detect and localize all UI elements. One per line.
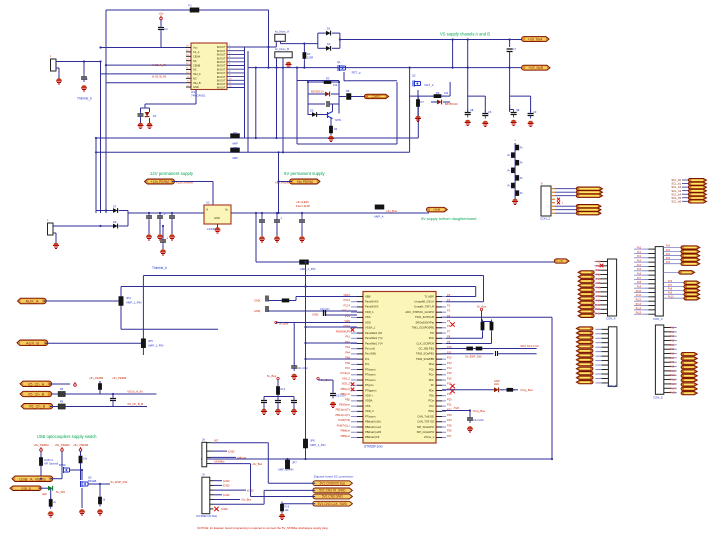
svg-text:P0: P0: [447, 293, 451, 297]
net flag V5_CH_A: [20, 381, 52, 386]
svg-text:PTixanm: PTixanm: [365, 414, 376, 418]
svg-text:LED: LED: [494, 383, 499, 386]
diode D8 on speaker rail: [101, 220, 129, 228]
diode D7 on 12V rail: [96, 205, 128, 213]
svg-text:V5_Ch_B: V5_Ch_B: [29, 405, 46, 409]
svg-text:+VS_NxA: +VS_NxA: [528, 37, 544, 41]
svg-text:+12v PERM: +12v PERM: [151, 180, 169, 184]
svg-text:D3: D3: [327, 42, 331, 46]
IC1 left pins: [186, 48, 191, 88]
ground below C8_A: [511, 120, 517, 126]
svg-text:PansWai1 (^)4: PansWai1 (^)4: [365, 341, 383, 345]
svg-text:PansWai1 (X0: PansWai1 (X0: [365, 331, 383, 335]
wire vertical left x106: [105, 10, 107, 213]
capacitor C19 osc: [254, 306, 357, 313]
CONN_D flag stack: [681, 352, 697, 394]
jumper AMP_1_PIN on y262: [300, 260, 316, 271]
J9 pin wires and labels: [214, 479, 265, 511]
wire vertical x475 inner loop: [121, 286, 476, 288]
wire Q4 Q5 links: [70, 469, 82, 471]
capacitor C13 on 12V rail: [169, 213, 175, 221]
vcc +5v_PERM 2: [54, 443, 70, 451]
svg-text:PB0rpm: PB0rpm: [341, 387, 350, 391]
capacitor C17 row: [110, 393, 116, 407]
svg-text:P4: P4: [447, 314, 451, 318]
MCU left pin labels: [335, 293, 350, 438]
zener D6 BZV55C10: [431, 100, 458, 106]
svg-text:Pc7: Pc7: [668, 284, 673, 287]
svg-text:+5v_PERM: +5v_PERM: [33, 443, 49, 447]
svg-text:VDD_2: VDD_2: [342, 382, 351, 386]
ground below R12: [97, 509, 103, 515]
svg-text:R4: R4: [334, 127, 338, 131]
svg-text:Pn: Pn: [431, 383, 435, 387]
red symbol 5v_Bus 3: [317, 377, 331, 382]
svg-text:C9: C9: [533, 110, 537, 114]
svg-text:Thimble_b: Thimble_b: [152, 266, 167, 270]
svg-text:Pd12: Pd12: [670, 379, 676, 382]
svg-text:F1: F1: [188, 4, 192, 8]
ground below R4: [328, 136, 334, 142]
svg-text:+: +: [166, 237, 168, 241]
svg-text:BZV55C10: BZV55C10: [445, 102, 458, 106]
net flag +VS_NxB: [522, 65, 551, 70]
svg-text:ks_Nxxx_A: ks_Nxxx_A: [275, 30, 289, 34]
svg-text:SPI_GCaGPO: SPI_GCaGPO: [417, 430, 434, 434]
svg-text:Pb3: Pb3: [596, 274, 601, 277]
net flag V5_CH_B2: [21, 404, 53, 409]
wire Q5 drain right: [89, 483, 111, 485]
wire vertical x256 down to y262: [255, 213, 257, 262]
wire charger box bottom y144: [297, 143, 397, 145]
svg-text:PB2: PB2: [345, 397, 350, 401]
wire Q5 down to ground: [81, 488, 83, 508]
svg-text:5v_ESP_SW: 5v_ESP_SW: [465, 355, 482, 359]
svg-text:CENA: CENA: [193, 55, 200, 59]
CONN_C flag stack lower: [663, 280, 700, 300]
svg-text:BSS&B: BSS&B: [88, 480, 97, 483]
svg-text:P1: P1: [447, 298, 451, 302]
svg-text:Pd9: Pd9: [670, 366, 675, 369]
jumper AMP on rail y138: [231, 131, 240, 146]
svg-text:PB11rpm(Tx: PB11rpm(Tx: [336, 408, 351, 412]
svg-text:5V permanent supply: 5V permanent supply: [284, 171, 325, 176]
svg-text:|GND: |GND: [221, 507, 228, 511]
svg-text:PCb: PCb: [429, 336, 435, 340]
svg-text:PB8rpm: PB8rpm: [341, 429, 350, 433]
net flag STLINK 2: [313, 488, 353, 493]
resistor R9 usb: [39, 451, 58, 478]
svg-text:ks_Nxxx_B: ks_Nxxx_B: [275, 47, 289, 51]
svg-text:VBB: VBB: [365, 294, 371, 298]
connector J8 4pin: [196, 438, 217, 518]
svg-text:D8: D8: [113, 220, 117, 224]
jumper J6 on x305 bus: [303, 439, 325, 461]
net flag +VS_NxA: [522, 37, 550, 42]
svg-text:P14: P14: [447, 366, 452, 370]
svg-text:VDD: VDD: [365, 320, 371, 324]
connector CONN_A: [595, 259, 617, 316]
svg-text:R14: R14: [281, 388, 286, 391]
svg-text:Pc12: Pc12: [636, 300, 642, 302]
capacitor C_sp1: [81, 62, 88, 83]
svg-text:Pmi pn5: Pmi pn5: [365, 347, 375, 351]
svg-text:Thimble_b: Thimble_b: [77, 97, 92, 101]
svg-text:LED: LED: [42, 493, 47, 496]
connector J9 8pin: [202, 473, 210, 514]
svg-text:Pb4: Pb4: [596, 278, 601, 281]
wire vertical x278 5V feed: [278, 152, 280, 213]
svg-text:+5v_Bus: +5v_Bus: [252, 462, 263, 466]
svg-text:Perm 4148: Perm 4148: [296, 204, 310, 208]
svg-text:catb.too: catb.too: [237, 456, 247, 460]
svg-text:P16: P16: [447, 376, 452, 380]
svg-text:SDA.SCL A 5V: SDA.SCL A 5V: [520, 344, 539, 348]
svg-text:C6: C6: [488, 110, 492, 114]
MCU internal text right column: [405, 294, 434, 439]
grounds below C14 C15 C16: [259, 236, 265, 242]
svg-text:Pb7: Pb7: [596, 291, 601, 294]
net flag CHARGER_ON: [364, 94, 388, 99]
diode loop right stub: [339, 33, 341, 48]
svg-text:|GND: |GND: [228, 449, 235, 453]
svg-text:PC14: PC14: [344, 303, 351, 307]
ground below speaker LS2: [53, 243, 59, 249]
diode loop left stub: [317, 33, 319, 48]
svg-text:FET_p: FET_p: [352, 71, 361, 75]
ground below speaker LS1: [56, 78, 62, 84]
CONN_D: [655, 325, 676, 394]
svg-text:SCL_b5: SCL_b5: [671, 196, 681, 200]
svg-text:5V1 CN3OV5 bus: 5V1 CN3OV5 bus: [320, 481, 346, 485]
wire charger top connections: [308, 80, 339, 82]
svg-text:UmaaAE_GE (A: UmaaAE_GE (A: [414, 300, 434, 304]
svg-text:P7: P7: [447, 329, 451, 333]
svg-text:CON_A: CON_A: [606, 317, 616, 321]
svg-text:VDDA: VDDA: [365, 399, 373, 403]
resistor R11 usb: [49, 488, 56, 509]
svg-text:IN/OUT: IN/OUT: [217, 71, 226, 75]
svg-text:V5_Ch_B_B: V5_Ch_B_B: [127, 402, 143, 406]
svg-text:UmaaN_TSF LR: UmaaN_TSF LR: [414, 305, 434, 309]
svg-text:Pc14: Pc14: [636, 308, 642, 310]
CON2 flags top: [576, 187, 602, 197]
svg-text:FB: FB: [60, 388, 64, 391]
svg-text:V5Ch_A_IN: V5Ch_A_IN: [127, 390, 142, 394]
connector J9 pins: [210, 481, 214, 509]
capacitor bank C22: [261, 395, 297, 406]
jumper AMP on rail y152: [231, 146, 240, 160]
vcc +5v_PERM 3: [73, 443, 89, 451]
svg-text:PTliganm: PTliganm: [365, 388, 377, 392]
svg-text:IN/OUT: IN/OUT: [217, 60, 226, 64]
svg-text:INH_A: INH_A: [193, 72, 201, 76]
svg-text:Pro: Pro: [365, 362, 370, 366]
svg-text:CAN_TnB GE: CAN_TnB GE: [417, 414, 434, 418]
svg-text:PO: PO: [430, 331, 434, 335]
CONN_D pin labels: [670, 327, 676, 395]
CON2 pin wires to flags: [555, 189, 578, 214]
svg-text:VSSA: VSSA: [343, 324, 350, 328]
svg-text:|GND: |GND: [223, 493, 230, 497]
svg-text:H.S1 A_IN: H.S1 A_IN: [152, 63, 166, 67]
svg-text:5v_SW: 5v_SW: [56, 490, 65, 494]
svg-text:NPI Optional: NPI Optional: [44, 463, 59, 466]
svg-text:C23 10n: C23 10n: [336, 395, 346, 398]
svg-text:Pd15: Pd15: [670, 392, 676, 395]
jumper J4 AMP_1_PIN: [119, 296, 142, 306]
svg-text:Equator board SC connection: Equator board SC connection: [314, 474, 354, 478]
svg-text:USB_B: USB_B: [21, 486, 31, 490]
wire flag AUX_B to jumper J5: [45, 342, 143, 344]
svg-text:5V1 CN3 IO_SWD: 5V1 CN3 IO_SWD: [319, 489, 346, 493]
svg-text:GND(: GND(: [312, 314, 319, 317]
svg-text:IN/OUT: IN/OUT: [217, 53, 226, 57]
svg-text:5v_ESP_SW: 5v_ESP_SW: [111, 480, 128, 484]
svg-text:PDa: PDa: [429, 362, 435, 366]
svg-text:SCL_b6: SCL_b6: [671, 199, 681, 203]
svg-text:Pd5: Pd5: [670, 348, 675, 351]
connector J8 pins: [207, 443, 211, 464]
svg-text:P12: P12: [447, 356, 452, 360]
svg-text:Pd6: Pd6: [670, 353, 675, 356]
ground below R11: [48, 511, 54, 517]
green diode D9: [42, 486, 65, 496]
capacitor C20: [312, 308, 357, 317]
svg-text:Pb2: Pb2: [596, 269, 601, 272]
J8 pin wires: [211, 439, 268, 466]
jumper J5 AMP_1_PIN: [141, 339, 163, 348]
svg-text:JP4: JP4: [126, 296, 131, 300]
wire y329 segment: [121, 328, 218, 330]
resistor R13 osc: [282, 297, 357, 303]
net flag +5V_PERM: [290, 179, 321, 184]
svg-text:Pc15: Pc15: [636, 313, 642, 315]
wire vcc2 down: [61, 451, 63, 470]
connector CON2: [540, 182, 551, 221]
svg-text:GC_SELPB1: GC_SELPB1: [418, 347, 434, 351]
capacitor C2 under VCC: [158, 20, 168, 48]
wire vertical x268: [267, 443, 269, 484]
MCU right pin labels: [447, 293, 452, 438]
svg-text:PnB(Tx5)_r: PnB(Tx5)_r: [337, 423, 350, 427]
svg-text:PB9rpm: PB9rpm: [341, 434, 350, 438]
svg-text:P2: P2: [447, 303, 451, 307]
resistor R15 pullup: [481, 311, 484, 333]
ground below relay K2: [286, 62, 292, 68]
svg-text:P3: P3: [447, 309, 451, 313]
wire vertical x256 upper: [255, 68, 257, 138]
svg-text:Q3: Q3: [412, 74, 416, 78]
svg-text:C7: C7: [513, 47, 517, 51]
svg-text:VSSA_1: VSSA_1: [365, 326, 376, 330]
svg-text:PCn: PCn: [429, 373, 435, 377]
ground below C24: [467, 426, 473, 432]
VCC symbol above IC1: [159, 12, 164, 20]
svg-text:R6: R6: [436, 91, 440, 95]
svg-text:5V1 CN3 CLK_SWD: 5V1 CN3 CLK_SWD: [318, 502, 348, 506]
wire usb flags: [50, 478, 62, 480]
MCU internal text left column: [365, 294, 383, 439]
ground below R18: [279, 514, 285, 520]
junction dots top-left: [83, 60, 85, 62]
svg-text:Pc1: Pc1: [666, 249, 671, 252]
wire 12V flag to rail: [172, 181, 213, 183]
ferrite FB2: [50, 401, 147, 410]
svg-text:IN/OUT: IN/OUT: [217, 79, 226, 83]
CONN_A pin labels: [595, 261, 601, 316]
resistor R16 pullup: [483, 320, 494, 333]
svg-text:PansNXXX: PansNXXX: [365, 300, 379, 304]
svg-text:PCr: PCr: [429, 404, 434, 408]
svg-text:+5v PERM: +5v PERM: [296, 180, 312, 184]
svg-text:+VS_NxB: +VS_NxB: [528, 66, 544, 70]
svg-text:P23: P23: [447, 413, 452, 417]
svg-text:INT: INT: [214, 439, 219, 443]
svg-text:Pc6: Pc6: [668, 280, 673, 283]
svg-text:CON_2: CON_2: [540, 217, 550, 221]
regulator U2 L4940 body: [204, 205, 231, 224]
svg-text:PTgnm: PTgnm: [365, 383, 374, 387]
wire vertical x467 rail down: [467, 40, 469, 113]
CONN_A flag stack: [578, 271, 594, 318]
svg-text:+: +: [163, 213, 165, 217]
CONN_C left wire labels: [634, 248, 642, 315]
svg-text:IN/OUT: IN/OUT: [217, 49, 226, 53]
svg-text:PA1: PA1: [345, 335, 350, 339]
svg-text:CAN_TSF GE: CAN_TSF GE: [417, 420, 434, 424]
net flag V5_CH_B1: [20, 391, 52, 396]
svg-text:Pd10: Pd10: [670, 370, 676, 373]
CONN_C: [642, 247, 663, 316]
charger inner left rail: [307, 81, 309, 116]
svg-text:Pc2: Pc2: [666, 253, 671, 256]
svg-text:Pc0: Pc0: [666, 245, 671, 248]
svg-text:AMP_1_PIN: AMP_1_PIN: [300, 267, 315, 271]
svg-text:VSS_2: VSS_2: [342, 376, 351, 380]
svg-text:Pd11: Pd11: [670, 374, 676, 377]
svg-text:AMP_1_PIN: AMP_1_PIN: [126, 301, 141, 305]
resistor R12: [98, 484, 105, 507]
wire flag AUX_A to jumper: [44, 300, 119, 302]
svg-text:VCCa_1: VCCa_1: [424, 435, 435, 439]
svg-text:IN/OUT: IN/OUT: [217, 67, 226, 71]
svg-text:Pb11: Pb11: [595, 308, 601, 311]
red symbol 5v_Bus 1: [275, 321, 289, 325]
svg-text:5v_Bus: 5v_Bus: [267, 374, 277, 378]
resistor R5 to charger flag: [339, 89, 367, 100]
vcc symbols +5v_PERM row: [74, 382, 77, 386]
wire rail y138: [96, 137, 418, 139]
svg-text:Chrg_Bus: Chrg_Bus: [473, 409, 486, 413]
wire regulator output rail: [231, 212, 429, 214]
net flag STLINK 4: [313, 501, 353, 506]
svg-text:CHRG: CHRG: [372, 95, 382, 99]
grounds below C11 C12 C13: [146, 234, 152, 240]
wire vertical x121: [120, 287, 122, 330]
net flag STLINK 1: [313, 481, 353, 486]
svg-text:SCL_b0: SCL_b0: [671, 178, 681, 182]
svg-text:D5: D5: [310, 109, 314, 113]
svg-text:H.S1 B_IN: H.S1 B_IN: [152, 75, 166, 79]
net flag USB_A_VBUS: [12, 476, 53, 482]
wire vertical x483 outer loop: [143, 275, 483, 277]
svg-text:NC: NC: [193, 59, 197, 63]
i2c wire SCL: [442, 344, 539, 350]
svg-text:ICCR/EN (N.MA): ICCR/EN (N.MA): [196, 514, 217, 518]
svg-text:PansWai1 (^)4: PansWai1 (^)4: [365, 336, 383, 340]
svg-text:Pc10: Pc10: [636, 291, 642, 293]
svg-text:P25: P25: [447, 423, 452, 427]
svg-text:+5v_PERM: +5v_PERM: [54, 443, 70, 447]
svg-text:PCk: PCk: [429, 367, 435, 371]
svg-text:SCL_b4: SCL_b4: [671, 192, 681, 196]
IC1 right pins and bus: [227, 47, 248, 152]
resistor R18 bottom: [280, 502, 289, 514]
svg-text:P24: P24: [447, 418, 452, 422]
svg-text:Pc8: Pc8: [668, 288, 673, 291]
svg-text:CON_C: CON_C: [653, 317, 663, 321]
FET1 p-mosfet: [337, 60, 361, 75]
svg-text:GND(: GND(: [254, 300, 261, 303]
svg-text:L4940: L4940: [207, 227, 216, 231]
svg-text:-5VD: -5VD: [453, 406, 459, 410]
svg-text:+5v_Bus: +5v_Bus: [241, 498, 252, 502]
svg-text:+5v_Bus: +5v_Bus: [386, 209, 398, 213]
charger inner right rail: [338, 81, 340, 114]
svg-text:PC13: PC13: [344, 298, 351, 302]
svg-text:S1_A: S1_A: [193, 50, 200, 54]
capacitor C12 on 12V rail: [157, 213, 165, 222]
wire pullups to mcu rows: [482, 333, 484, 339]
CON2 pins: [551, 189, 555, 214]
jumper AMP_A on 5V link: [374, 205, 398, 219]
wires relay K2 down: [276, 58, 278, 138]
svg-text:Chrg_Bus: Chrg_Bus: [520, 388, 533, 392]
svg-text:+5v_PERM: +5v_PERM: [112, 376, 127, 380]
wire vertical x96: [95, 138, 97, 213]
capacitor C23: [318, 380, 346, 399]
svg-text:+5v_PERM: +5v_PERM: [89, 376, 104, 380]
svg-text:PDw: PDw: [428, 409, 434, 413]
svg-text:AUX_A: AUX_A: [25, 299, 38, 304]
relay K1: [275, 30, 289, 42]
svg-text:TL.MSF: TL.MSF: [424, 294, 434, 298]
svg-text:PDr: PDr: [429, 393, 434, 397]
svg-text:USB optocouplers supply switc: USB optocouplers supply switch: [37, 434, 97, 439]
capacitor C7 inline x509: [507, 38, 517, 67]
nc cross right 2: [450, 384, 454, 388]
ground below C_sp1: [81, 85, 87, 91]
wire -5VD row: [442, 406, 486, 413]
capacitor C3 below IC1: [138, 108, 144, 123]
svg-text:Pd2: Pd2: [670, 335, 675, 338]
svg-text:PTixanm: PTixanm: [365, 378, 376, 382]
svg-text:STM32F1xxx: STM32F1xxx: [364, 445, 383, 449]
net flag small x556: [554, 259, 569, 263]
svg-text:V5_Ch_A: V5_Ch_A: [28, 382, 45, 386]
IC1 internal text: [193, 45, 226, 89]
svg-text:JP5: JP5: [148, 339, 153, 343]
junctions on rail y68: [303, 67, 305, 69]
diode D2 top branch: [318, 27, 340, 36]
svg-text:VSS: VSS: [365, 315, 371, 319]
svg-text:AMP_1_PIN: AMP_1_PIN: [278, 468, 293, 472]
svg-text:NC: NC: [193, 77, 197, 81]
svg-text:ADC_STRTAC_GC2PO: ADC_STRTAC_GC2PO: [405, 310, 434, 314]
wire bracket cap pair 1: [468, 95, 486, 97]
svg-text:SROaSSXXPat: SROaSSXXPat: [415, 320, 434, 324]
